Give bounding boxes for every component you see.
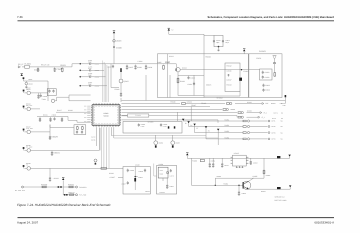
svg-text:R3441: R3441 bbox=[68, 184, 75, 187]
svg-text:C3421: C3421 bbox=[34, 68, 40, 71]
svg-text:FL3401: FL3401 bbox=[25, 62, 31, 65]
svg-text:R3440: R3440 bbox=[41, 184, 48, 187]
svg-text:0.1uF: 0.1uF bbox=[88, 68, 92, 70]
svg-text:Schematics, Component Location: Schematics, Component Location Diagrams,… bbox=[208, 16, 335, 19]
svg-text:Q3402: Q3402 bbox=[124, 80, 129, 83]
svg-text:R3448: R3448 bbox=[201, 102, 206, 105]
svg-text:NU: NU bbox=[281, 113, 283, 115]
svg-text:C3417: C3417 bbox=[227, 78, 232, 81]
svg-text:6816533H01-A: 6816533H01-A bbox=[315, 221, 335, 225]
svg-text:U3402: U3402 bbox=[234, 152, 239, 155]
svg-text:R3421: R3421 bbox=[60, 64, 66, 67]
svg-text:R3413: R3413 bbox=[227, 83, 232, 86]
svg-text:R3436: R3436 bbox=[91, 140, 95, 142]
svg-text:0.1uF: 0.1uF bbox=[88, 74, 92, 76]
svg-text:C3416: C3416 bbox=[227, 69, 232, 72]
svg-text:L3404: L3404 bbox=[138, 60, 143, 63]
svg-text:R3442: R3442 bbox=[68, 191, 75, 194]
svg-text:Figure 7-24. HUD4022A/HUD4022: Figure 7-24. HUD4022A/HUD4022B Receiver … bbox=[17, 203, 111, 207]
svg-text:Y3401: Y3401 bbox=[256, 57, 261, 60]
svg-text:C3406: C3406 bbox=[116, 46, 122, 49]
svg-text:R3443: R3443 bbox=[274, 113, 278, 115]
svg-text:7-36: 7-36 bbox=[17, 15, 23, 19]
svg-text:0.1uF: 0.1uF bbox=[88, 61, 92, 63]
svg-text:0.1uF: 0.1uF bbox=[88, 83, 92, 85]
svg-text:C3431: C3431 bbox=[54, 151, 61, 154]
svg-text:R3444: R3444 bbox=[272, 118, 276, 120]
svg-text:C3446: C3446 bbox=[170, 175, 174, 177]
svg-text:C3434: C3434 bbox=[91, 137, 95, 139]
svg-text:RX_IF: RX_IF bbox=[18, 63, 24, 66]
svg-text:August 24, 2007: August 24, 2007 bbox=[17, 221, 38, 225]
svg-text:NU: NU bbox=[281, 118, 283, 120]
svg-text:SH3402: SH3402 bbox=[217, 97, 223, 100]
svg-text:RX_IF_IN: RX_IF_IN bbox=[41, 64, 50, 67]
svg-text:SA616: SA616 bbox=[103, 115, 108, 118]
svg-text:L3403: L3403 bbox=[116, 40, 121, 43]
svg-text:C3415: C3415 bbox=[206, 84, 211, 87]
svg-text:C3418: C3418 bbox=[243, 70, 248, 73]
svg-text:C3440: C3440 bbox=[187, 101, 192, 104]
svg-text:R3446: R3446 bbox=[171, 100, 176, 103]
svg-text:SH3401: SH3401 bbox=[259, 50, 266, 53]
svg-text:R3412: R3412 bbox=[227, 64, 232, 67]
svg-text:R3406: R3406 bbox=[115, 88, 120, 91]
svg-text:R3410: R3410 bbox=[206, 55, 211, 58]
svg-text:C3429: C3429 bbox=[52, 136, 59, 139]
